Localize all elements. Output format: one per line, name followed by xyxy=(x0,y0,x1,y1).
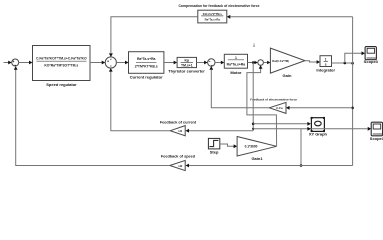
wire H1 output to sum2 bottom xyxy=(109,68,170,131)
svg-text:2*TM*KT*KB.s: 2*TM*KT*KB.s xyxy=(135,65,158,69)
gain triangle H2 (feedback of speed) xyxy=(161,154,196,170)
wire sum2 to current regulator xyxy=(116,61,128,65)
wire speed riser from bottom line to XY input 2 xyxy=(300,129,303,167)
wire integrator output to feedback column xyxy=(332,62,354,65)
svg-text:XY Graph: XY Graph xyxy=(309,132,328,137)
wire C.Fa output to sum3 bottom xyxy=(209,66,269,108)
svg-text:H1: H1 xyxy=(178,129,182,133)
scope Scope1 xyxy=(370,122,383,141)
wire input stub into sum1 xyxy=(4,61,12,65)
gain triangle C.Fa (EMF feedback) xyxy=(250,97,297,113)
wire branch up to Scope2 xyxy=(345,51,365,63)
sum S4 (load subtract) xyxy=(258,60,264,66)
svg-text:C.Fa: C.Fa xyxy=(276,106,283,110)
svg-text:Scope3: Scope3 xyxy=(364,59,379,64)
svg-text:Thyristor converter: Thyristor converter xyxy=(168,68,205,73)
wire thyristor to sum3 xyxy=(197,61,208,65)
block Current regulator xyxy=(129,52,164,80)
svg-text:Ra*Ta.s+Ra: Ra*Ta.s+Ra xyxy=(205,18,221,22)
wire speed regulator to sum2 xyxy=(90,61,105,65)
svg-text:C.Fa*Ta*KOT*TM.s+C.Fa*Ta*KO: C.Fa*Ta*KOT*TM.s+C.Fa*Ta*KO xyxy=(36,56,87,60)
svg-text:TM.s+1: TM.s+1 xyxy=(181,63,193,67)
wire sum1 to speed regulator xyxy=(19,61,33,65)
wire EMF feedback tap to C.Fa triangle xyxy=(286,106,354,110)
svg-text:Ra*Ta.s+Ra: Ra*Ta.s+Ra xyxy=(137,57,156,61)
svg-text:0.1*3600: 0.1*3600 xyxy=(245,145,258,149)
scope Scope2 xyxy=(364,47,379,64)
svg-text:KO*Ra*TM*3OT*TM.s: KO*Ra*TM*3OT*TM.s xyxy=(44,64,78,68)
wire motor to sum4 with junction xyxy=(248,61,258,65)
wire gain to integrator xyxy=(305,60,320,64)
svg-text:Integrator: Integrator xyxy=(316,68,335,73)
svg-text:Scope1: Scope1 xyxy=(370,136,383,141)
svg-text:Motor: Motor xyxy=(230,70,242,75)
svg-text:Feedback of speed: Feedback of speed xyxy=(161,154,196,158)
gain triangle Ra/(C.Fa*TM) xyxy=(270,48,305,78)
wire step to gain1 xyxy=(220,144,237,148)
svg-text:Ra/(C.Fa*TM): Ra/(C.Fa*TM) xyxy=(272,59,289,63)
svg-text:Ra*Ta.s+Ra: Ra*Ta.s+Ra xyxy=(227,63,246,67)
wire long right feedback column (n) xyxy=(352,17,354,166)
block Motor xyxy=(224,54,247,75)
svg-text:s: s xyxy=(325,63,327,67)
svg-text:Current regulator: Current regulator xyxy=(130,74,163,79)
svg-text:1: 1 xyxy=(325,58,327,62)
block Speed regulator xyxy=(33,46,91,88)
wire bottom speed feedback line from column to H2 xyxy=(186,164,353,168)
gain triangle H1 (feedback of current) xyxy=(160,120,197,136)
sum S2 (current loop summing, 3 inputs) xyxy=(105,57,116,68)
svg-text:i: i xyxy=(253,43,254,48)
sum S1 (speed error) xyxy=(12,59,19,66)
wire current regulator to thyristor xyxy=(164,61,177,65)
wire sum4 to gain xyxy=(263,61,270,65)
svg-text:Gain1: Gain1 xyxy=(251,156,263,161)
wire i to XY graph input 1 xyxy=(253,122,311,126)
block XY Graph xyxy=(309,117,328,137)
svg-text:H2: H2 xyxy=(178,164,182,168)
block Integrator 1/s xyxy=(316,56,335,73)
block compensation for feedback of EMF xyxy=(198,10,227,23)
wire speed to XY graph input 2 and Scope1 (passes across XY block) xyxy=(253,127,371,131)
svg-text:Gain: Gain xyxy=(283,73,292,78)
sum S3 (EMF subtract) xyxy=(208,59,215,66)
wire Gain1 output up-and-over to sum4 bottom (load) xyxy=(247,65,277,146)
wire H2 output to sum1 bottom xyxy=(14,66,170,165)
svg-text:1: 1 xyxy=(235,56,237,60)
wire compensation output to sum2 top xyxy=(109,17,198,57)
svg-text:Feedback of electromotive forc: Feedback of electromotive force xyxy=(250,97,297,101)
wire sum3 to motor xyxy=(215,61,224,65)
wire top from column to compensation block xyxy=(227,15,353,19)
block Step xyxy=(208,138,219,154)
wire current i feedback column xyxy=(252,63,255,131)
svg-text:Speed regulator: Speed regulator xyxy=(46,82,77,87)
gain triangle Gain1 0.1*3600 xyxy=(237,137,277,161)
label compensation title xyxy=(178,4,259,8)
svg-text:Compensation for feedback of e: Compensation for feedback of electromoti… xyxy=(178,4,259,8)
node label i xyxy=(253,43,254,48)
svg-text:Feedback of current: Feedback of current xyxy=(160,120,197,124)
svg-text:KtC.Fa*2*TM.s: KtC.Fa*2*TM.s xyxy=(203,12,223,16)
svg-text:Kp: Kp xyxy=(185,59,190,63)
block Thyristor converter xyxy=(168,57,205,73)
svg-text:Step: Step xyxy=(210,150,219,155)
wire i to H1 current feedback gain xyxy=(186,129,254,133)
